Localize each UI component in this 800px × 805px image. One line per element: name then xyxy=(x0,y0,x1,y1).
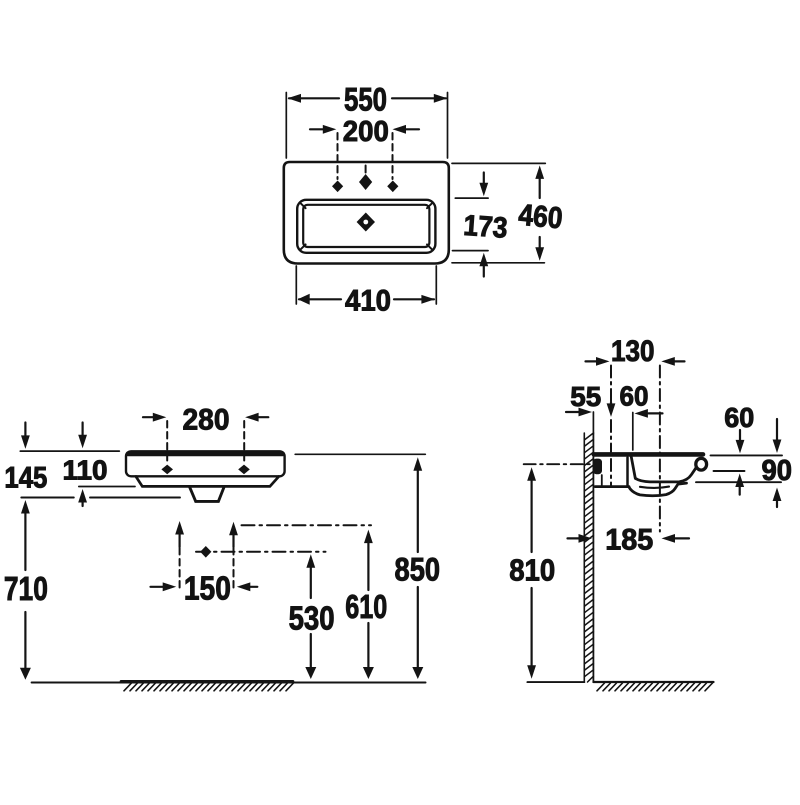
faucet hole left xyxy=(332,181,343,193)
svg-text:410: 410 xyxy=(345,285,391,318)
dim 810 line xyxy=(527,467,536,481)
faucet hole right xyxy=(387,181,398,193)
inner basin outer rim (top view) xyxy=(297,200,435,253)
svg-text:610: 610 xyxy=(345,588,387,625)
dim 90 arrows xyxy=(776,419,778,441)
dim 150 right arrow xyxy=(245,586,257,588)
corner tick top-left xyxy=(300,202,306,208)
dim 410 line xyxy=(299,298,341,300)
dim 810 top dash-dot extension xyxy=(524,463,590,465)
dim 460 extension line top xyxy=(452,162,545,164)
ground hatch band (front view) xyxy=(121,680,293,683)
svg-text:280: 280 xyxy=(183,404,230,437)
corner tick top-right xyxy=(427,202,433,208)
mounting hole left (front view) xyxy=(161,465,173,475)
svg-text:850: 850 xyxy=(395,551,441,587)
svg-text:810: 810 xyxy=(509,553,555,588)
drain boss under bowl (side view) xyxy=(629,483,687,496)
dim 280 left arrow xyxy=(143,416,155,418)
svg-text:60: 60 xyxy=(724,402,754,433)
svg-text:550: 550 xyxy=(344,82,387,118)
dim 145 bottom arrow / dim 710 line top xyxy=(21,500,30,514)
dim 173 extension line bottom xyxy=(453,250,489,252)
dim 200 line left arrow xyxy=(310,128,325,130)
basin thick top rim bar (front view) xyxy=(128,451,283,456)
wall edges xyxy=(583,433,585,682)
dim 150 left arrow xyxy=(151,586,165,588)
dim 110 top arrow xyxy=(81,423,83,437)
bowl front bottom extension line L3 xyxy=(696,481,781,483)
dim 610 line xyxy=(364,530,373,544)
dim 185 left arrow xyxy=(568,537,582,539)
svg-text:710: 710 xyxy=(4,570,48,607)
down arrow on tap axis xyxy=(607,403,616,417)
dim 850 top extension line xyxy=(295,453,425,455)
dim 550 extension line right xyxy=(447,93,449,159)
dim 145 top arrow xyxy=(24,423,26,438)
inner basin inner rim (top view) xyxy=(303,205,429,247)
corner tick bottom-right xyxy=(427,244,433,250)
bowl interior (side view) xyxy=(631,457,696,482)
svg-text:173: 173 xyxy=(462,210,508,245)
dim 280 right arrow xyxy=(256,416,268,418)
dim 850 line xyxy=(413,457,422,471)
basin outer outline (top view) xyxy=(284,162,449,264)
centerline dash above center hole xyxy=(365,166,367,173)
dim 60 right arrows xyxy=(739,430,741,442)
dim 55 arrow xyxy=(566,411,580,413)
dashed drop line to left mounting hole xyxy=(166,421,168,465)
dim 530 line xyxy=(306,554,315,568)
wall hatch xyxy=(584,433,593,682)
faucet hole center xyxy=(359,174,372,190)
bracket right edge (side view) xyxy=(626,458,629,487)
svg-text:200: 200 xyxy=(343,116,389,148)
fixing point arrow right (x150) xyxy=(229,522,238,536)
drain boss inner line xyxy=(640,487,669,488)
svg-text:530: 530 xyxy=(289,599,335,636)
centerline drain axis (dash-dot, x=659.9) xyxy=(659,366,661,532)
basin rim bar (side view) xyxy=(594,452,703,457)
top level extension line (left of basin) xyxy=(20,450,119,452)
drain hole diamond (top view) xyxy=(357,213,375,232)
front lip hook (side view) xyxy=(696,458,707,470)
svg-text:460: 460 xyxy=(517,199,564,236)
dim 810 bottom extension line xyxy=(527,681,584,683)
dim 110 bottom extension line xyxy=(79,486,135,488)
dim 173 arrows xyxy=(483,173,485,185)
dim 110 bottom arrow xyxy=(78,489,87,503)
centerline tap axis (dash-dot, x=611) xyxy=(610,366,612,405)
svg-text:185: 185 xyxy=(605,524,653,557)
dim 550 line xyxy=(289,97,339,99)
fixing point arrow left (x150) xyxy=(175,521,184,535)
dim 185 right arrow xyxy=(662,534,676,543)
dim 410 extension line left xyxy=(295,266,297,304)
dim 173 extension line top xyxy=(455,197,488,199)
corner tick bottom-left xyxy=(300,244,306,250)
mounting hole right (front view) xyxy=(238,465,250,475)
svg-text:150: 150 xyxy=(184,569,231,606)
bowl back wall extension line xyxy=(632,413,634,451)
ground hatch band (side view) xyxy=(597,683,713,691)
wall knob / fixing (side view) xyxy=(593,459,602,475)
dim 60 top arrow xyxy=(634,409,648,418)
svg-text:90: 90 xyxy=(762,455,793,487)
bracket lower-left vertical xyxy=(601,475,603,486)
svg-text:145: 145 xyxy=(4,461,47,494)
rim top level extension line L1 xyxy=(711,454,783,456)
dim 460 line + arrows xyxy=(539,177,541,198)
dim 410 extension line right xyxy=(435,266,437,304)
basin body (front view) xyxy=(126,451,285,476)
drain trap (front view) xyxy=(190,487,224,501)
dash-dot level line to dim 530 xyxy=(196,551,326,553)
dash-dot level line to dim 610 xyxy=(242,524,372,526)
svg-text:60: 60 xyxy=(620,381,649,412)
ground line (front view) xyxy=(32,682,426,684)
ledge level extension line L2 xyxy=(714,470,745,472)
svg-text:130: 130 xyxy=(611,335,655,368)
dim 200 line right arrow xyxy=(404,128,419,130)
bracket bottom (side view) xyxy=(595,485,629,488)
ground line (side view) xyxy=(593,681,713,683)
dim 130 right arrow xyxy=(672,360,685,362)
dashed drop line to right faucet hole xyxy=(392,133,394,179)
dim 460 extension line bottom xyxy=(452,262,544,264)
dim 550 extension line left xyxy=(285,93,287,159)
dim 710 line bottom + arrow xyxy=(24,612,26,668)
svg-text:110: 110 xyxy=(63,455,108,486)
basin mid trapezoid (front view) xyxy=(136,477,279,487)
wall face extension line up xyxy=(592,412,594,433)
drain anchor diamond (front view) xyxy=(200,546,211,558)
dim 145 bottom extension line xyxy=(21,497,74,499)
dim 130 left arrow xyxy=(586,360,599,362)
svg-text:55: 55 xyxy=(570,381,601,412)
dashed drop line to right mounting hole xyxy=(243,421,245,465)
dashed drop line to left faucet hole xyxy=(337,133,339,179)
